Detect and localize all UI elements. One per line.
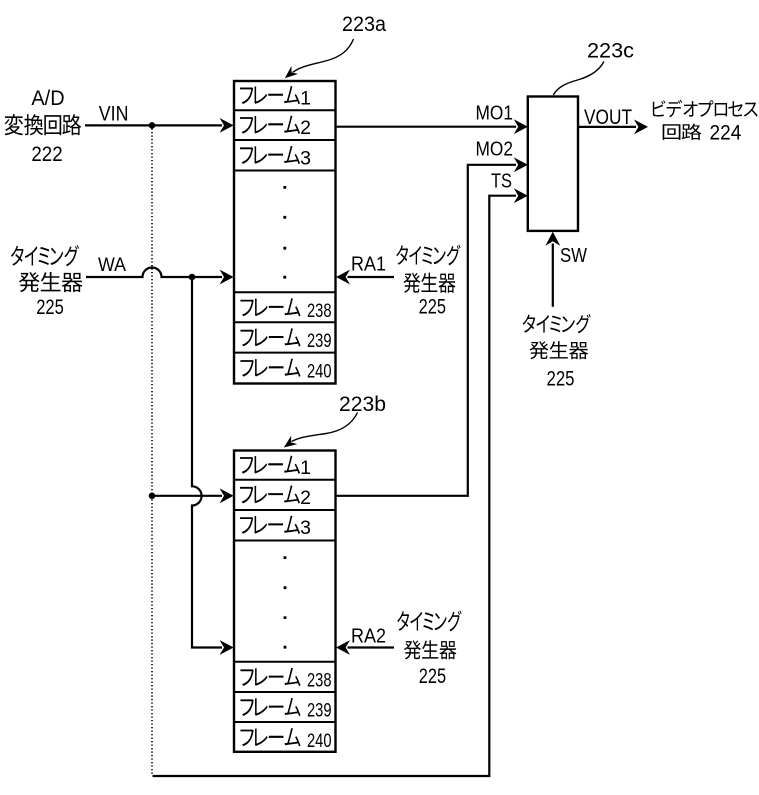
junction dot WA branch [189, 274, 196, 281]
arrow into 223b frame2 [220, 488, 234, 503]
svg-text:2: 2 [300, 487, 311, 509]
svg-text:VIN: VIN [99, 102, 129, 125]
svg-text:1: 1 [300, 457, 311, 479]
arrow MO2 into 223c [514, 157, 528, 172]
row labels frame1-3 of 223a [240, 87, 253, 104]
selector switch block 223c [528, 97, 578, 231]
leader line 223c [553, 62, 604, 96]
svg-text:223b: 223b [339, 392, 386, 416]
wire MO1 [336, 126, 517, 128]
label A/D converter circuit 222 line2 (kanji) [5, 114, 23, 135]
svg-text:223a: 223a [342, 12, 386, 36]
label timing generator 225 (left) line1 [11, 246, 24, 266]
arrow VOUT to video processor [634, 120, 648, 135]
svg-text:238: 238 [307, 670, 332, 692]
arrow into 223b write port [220, 640, 234, 655]
wire VIN horizontal [85, 124, 222, 126]
wire WA with hop over dotted line [86, 268, 222, 278]
svg-text:MO1: MO1 [476, 101, 514, 124]
label timing generator 225 (SW) line2 [529, 341, 548, 359]
svg-text:240: 240 [307, 360, 332, 382]
wire WA branch down with hop, into 223b write port [192, 277, 222, 648]
svg-text:222: 222 [31, 142, 62, 166]
label video process circuit 224 line1 [653, 100, 666, 116]
wire RA1 [348, 276, 395, 278]
wire VIN branch into 223b frame2 [152, 495, 222, 497]
svg-text:SW: SW [560, 244, 588, 267]
frame memory block 223a [234, 81, 336, 384]
row separators 223a [234, 110, 336, 352]
svg-text:239: 239 [307, 330, 332, 352]
svg-text:1: 1 [300, 88, 311, 110]
frame memory block 223b [234, 451, 336, 752]
wire SW [552, 244, 554, 307]
label timing generator 225 (SW) line1 [523, 315, 536, 333]
wire TS from bottom bus [153, 196, 517, 776]
svg-text:224: 224 [710, 122, 742, 145]
svg-text:240: 240 [307, 730, 332, 752]
svg-text:225: 225 [419, 296, 446, 319]
label video process circuit 224 line2 kanji [663, 124, 681, 140]
svg-text:RA2: RA2 [351, 625, 386, 648]
ellipsis dots inside 223a [283, 186, 286, 279]
arrow RA2 into 223b read port [336, 640, 350, 655]
row separators 223b [234, 480, 336, 722]
row labels frame238-240 of 223a [240, 300, 253, 317]
dotted wire VIN branch down [151, 129, 153, 776]
junction dot VIN branch [149, 122, 156, 129]
label timing generator 225 (RA2) line2 [404, 640, 421, 659]
svg-text:3: 3 [300, 517, 311, 539]
row labels frame1-3 of 223b [240, 457, 253, 474]
svg-text:3: 3 [300, 147, 311, 169]
svg-text:225: 225 [547, 367, 575, 390]
label timing generator 225 (left) line2 [19, 272, 40, 292]
svg-text:223c: 223c [587, 39, 634, 63]
svg-text:RA1: RA1 [351, 253, 386, 276]
arrow RA1 into 223a read port [336, 270, 350, 285]
svg-text:A/D: A/D [31, 87, 64, 110]
wire MO2 from 223b frame2 [336, 165, 517, 496]
svg-text:WA: WA [98, 254, 126, 276]
leader line 223a [293, 39, 354, 73]
label timing generator 225 (RA1) line1 [396, 245, 408, 265]
ellipsis dots inside 223b [284, 556, 287, 648]
junction dot VIN to 223b [149, 493, 156, 500]
svg-text:239: 239 [307, 700, 332, 722]
arrow into 223a frame2 [220, 118, 234, 133]
arrow SW into 223c bottom [545, 232, 560, 246]
arrow MO1 into 223c [514, 119, 528, 134]
svg-text:TS: TS [491, 169, 512, 192]
svg-text:MO2: MO2 [476, 138, 514, 161]
leader line 223b [292, 413, 358, 442]
svg-text:238: 238 [307, 300, 332, 322]
svg-text:225: 225 [419, 665, 446, 688]
svg-text:VOUT: VOUT [584, 106, 632, 129]
wire VOUT [578, 126, 636, 128]
arrow TS into 223c [514, 188, 528, 203]
label timing generator 225 (RA2) line1 [397, 611, 409, 631]
svg-text:2: 2 [300, 117, 311, 139]
row labels frame238-240 of 223b [240, 669, 253, 686]
svg-text:225: 225 [36, 296, 64, 319]
wire RA2 [348, 646, 395, 648]
label timing generator 225 (RA1) line2 [403, 273, 420, 293]
arrow into 223a write port [220, 270, 234, 285]
